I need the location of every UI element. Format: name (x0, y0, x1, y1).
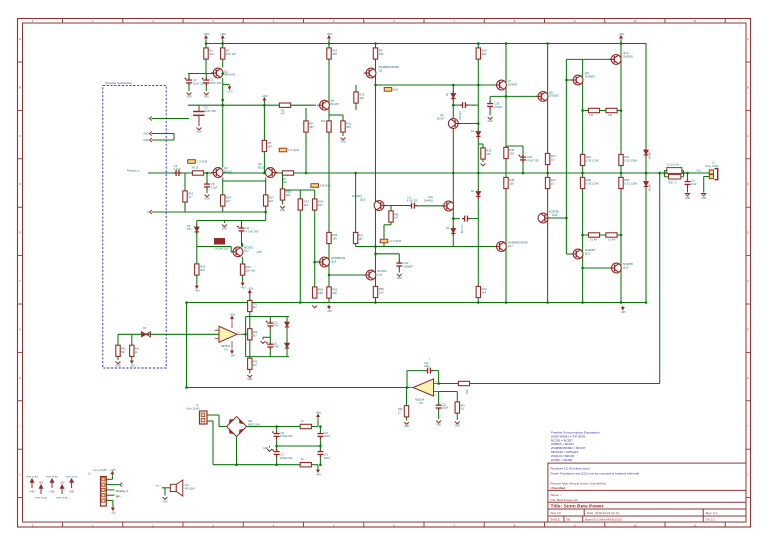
svg-text:Out: Out (697, 169, 701, 173)
wire IC2 input net (439, 383, 660, 385)
junction rail +46V x222.7 (221, 42, 224, 45)
net 0 (150, 117, 152, 121)
resistor R2 (221, 48, 225, 59)
capacitor C18 (317, 431, 323, 439)
wire gnd mid leg (262, 337, 264, 339)
svg-text:GND: GND (701, 198, 706, 200)
svg-text:Unverified: Unverified (551, 486, 566, 490)
wire Q1 emitter (222, 78, 224, 85)
junction mid1 (275, 445, 278, 448)
wire +46V top rail (206, 43, 647, 45)
junction pair lo l (581, 234, 584, 237)
resistor R34 (313, 199, 317, 210)
wire emitter pair net lower (583, 234, 621, 236)
svg-text:47R: 47R (608, 114, 613, 117)
junction Q6 base (477, 122, 480, 125)
junction C3 net (221, 104, 224, 107)
resistor R3 (192, 171, 203, 175)
svg-text:3k3: 3k3 (200, 268, 205, 272)
wire Q9 base net (566, 79, 573, 81)
svg-text:-15V: -15V (111, 512, 117, 515)
wire gnd mid stub (263, 336, 270, 338)
test point TP3 (311, 184, 319, 188)
svg-text:MPSA42: MPSA42 (224, 73, 235, 77)
wire C28 net b (468, 104, 478, 106)
wire Q12 base net c (231, 251, 233, 253)
transistor Q14 (317, 257, 329, 267)
fuse F2 (300, 463, 311, 467)
transistor Q13 (571, 249, 583, 259)
capacitor C13 (409, 203, 417, 209)
junction IC1 out (244, 333, 247, 336)
wire C11 bottom (269, 350, 271, 357)
svg-text:100nF: 100nF (323, 457, 330, 460)
wire J3 pin3 (106, 489, 114, 491)
junction mid rail x621 (620, 172, 623, 175)
wire Q9/Q13 column (582, 59, 584, 302)
capacitor C10 (267, 321, 273, 329)
wire C29 top (489, 96, 491, 101)
capacitor C30 (520, 155, 526, 163)
supply -46V (328, 305, 331, 309)
resistor R53 (588, 233, 599, 237)
junction L1 left (663, 172, 666, 175)
resistor R9 (373, 48, 377, 59)
svg-text:GND: GND (263, 448, 268, 450)
svg-text:1k5: 1k5 (283, 181, 288, 184)
capacitor C28 (460, 102, 468, 108)
wire C18-C19 (319, 439, 321, 452)
svg-text:Std.: Std. (566, 518, 571, 522)
svg-text:4700uF 50V: 4700uF 50V (280, 435, 293, 438)
resistor R6 (279, 103, 290, 107)
junction mid rail x306 (305, 172, 308, 175)
diode D2 (476, 189, 480, 199)
wire psu f (213, 464, 237, 466)
wire C18 top (319, 427, 321, 432)
junction base net x375 (374, 245, 377, 248)
svg-text:361: 361 (346, 125, 351, 129)
junction psu0 (235, 463, 238, 466)
junction mid rail x646 (645, 172, 648, 175)
resistor R18 (606, 108, 617, 112)
svg-text:Title: Sunn Beta Power: Title: Sunn Beta Power (551, 504, 604, 510)
svg-text:GND: GND (340, 142, 345, 144)
diode D4 (451, 226, 455, 236)
wire C8 top (241, 221, 243, 226)
junction Q14 base (313, 261, 316, 264)
svg-text:Q15: Q15 (360, 197, 366, 201)
wire psu b (218, 415, 220, 427)
wire R26 top (242, 257, 244, 264)
junction Q1 base (221, 72, 224, 75)
svg-text:GND: GND (280, 210, 285, 212)
preamp connection dashed box (103, 85, 166, 368)
op-amp IC2 (413, 379, 434, 396)
resistor R46 (504, 177, 508, 188)
svg-text:1k4: 1k4 (482, 290, 487, 294)
wire psu plus rail b (312, 426, 319, 428)
wire J3 +15 leg (111, 476, 113, 480)
svg-text:15: 15 (551, 157, 555, 161)
svg-text:0.1 4W: 0.1 4W (608, 240, 616, 242)
wire Q14 base (315, 261, 320, 263)
svg-text:Board (9.3.0/Win64/EN/2019): Board (9.3.0/Win64/EN/2019) (585, 518, 622, 522)
junction rail +46V x206 (205, 42, 208, 45)
junction fb corner (185, 386, 188, 389)
supply -15V (231, 349, 234, 353)
transistor Q3 (364, 68, 376, 78)
ground R45 (455, 422, 460, 424)
junction Q19 base (581, 267, 584, 270)
diode D8 (451, 91, 455, 101)
resistor R54 (606, 233, 617, 237)
wire preamp in (148, 172, 174, 174)
svg-text:150 1W: 150 1W (226, 52, 236, 56)
svg-text:+15V: +15V (229, 314, 235, 317)
junction C31 (452, 217, 455, 220)
svg-text:Date: 2019-04-19 21:13: Date: 2019-04-19 21:13 (587, 511, 619, 515)
resistor R56 (373, 286, 377, 297)
junction bottom rail x547.6 (546, 301, 549, 304)
wire R22 bottom (184, 202, 186, 212)
svg-text:Conn_01x02: Conn_01x02 (186, 407, 200, 410)
junction Q11 base net (328, 274, 331, 277)
capacitor C15 (685, 179, 691, 187)
capacitor C19 (317, 449, 323, 457)
svg-text:-46V: -46V (195, 290, 201, 293)
wire R28 stub (282, 173, 284, 190)
svg-text:GND: GND (222, 229, 227, 231)
transistor Q8 (536, 92, 548, 102)
capacitor C8 (239, 226, 245, 234)
wire emitter join (223, 180, 266, 182)
svg-text:367: 367 (359, 238, 364, 241)
svg-text:2N4403: 2N4403 (424, 199, 433, 202)
wire C17 bottom (276, 457, 278, 465)
resistor R22 (183, 191, 187, 202)
wire R58 stub (390, 206, 392, 211)
svg-text:R10: R10 (321, 120, 326, 123)
wire R34 column (314, 190, 316, 287)
wire out gnd leg (703, 177, 705, 193)
svg-text:150: 150 (379, 52, 384, 56)
svg-text:PWR_FLAG: PWR_FLAG (46, 475, 58, 478)
wire psu gnd stub (269, 446, 271, 448)
svg-text:150: 150 (332, 236, 337, 240)
svg-text:C: C (747, 134, 749, 138)
junction C16 (275, 425, 278, 428)
wire Q8/Q18 column (547, 44, 549, 303)
svg-text:-15V: -15V (130, 365, 136, 368)
wire net 0a (152, 118, 189, 120)
svg-text:470pF: 470pF (494, 105, 502, 109)
junction bottom rail x646 (645, 301, 648, 304)
svg-text:D: D (19, 182, 21, 186)
svg-text:R3 1k: R3 1k (192, 167, 199, 170)
wire Q12 base net b (230, 247, 232, 252)
wire R33 column (299, 190, 301, 303)
svg-text:D: D (747, 182, 749, 186)
capacitor C12 (436, 403, 442, 411)
capacitor C17 (274, 449, 280, 457)
transistor Q18 (538, 213, 550, 223)
resistor R17 (545, 153, 549, 164)
junction bottom rail x300.3 (299, 301, 302, 304)
svg-text:Q3: Q3 (379, 68, 383, 72)
wire gnd stub join (173, 134, 175, 141)
svg-text:150: 150 (509, 151, 514, 155)
svg-text:+0.7V B+B: +0.7V B+B (389, 240, 401, 243)
svg-text:+46V: +46V (618, 33, 624, 36)
junction C22 tap (374, 253, 377, 256)
ground bias (222, 225, 227, 227)
svg-text:47R: 47R (589, 114, 594, 117)
wire R15 stub a (478, 143, 483, 145)
svg-text:1k4: 1k4 (394, 217, 399, 220)
transistor Q10 (609, 55, 621, 65)
wire R33R34 top net (283, 189, 315, 191)
wire bias bottom (197, 246, 231, 248)
ground R11 (341, 138, 346, 140)
wire R39 stub (406, 388, 408, 406)
svg-text:-46V: -46V (621, 311, 627, 314)
wire C16-C17 (276, 439, 278, 452)
resistor R23 (221, 195, 225, 206)
resistor R5 (262, 140, 266, 151)
supply -46V (241, 281, 244, 285)
transistor Q11 (364, 270, 376, 280)
svg-text:GND: GND (162, 502, 167, 504)
power flag GND (70, 479, 73, 488)
svg-text:0.7V B+B: 0.7V B+B (288, 149, 299, 152)
junction rail +46V x478.3 (477, 42, 480, 45)
wire IC2 output net (187, 387, 410, 389)
diode D9 (644, 148, 648, 158)
wire R27 bottom (265, 206, 267, 212)
wire IC1 fb left (245, 317, 247, 357)
power flag -15V (60, 485, 63, 494)
svg-text:Rev: 0.1: Rev: 0.1 (706, 511, 718, 515)
svg-text:GND: GND (247, 379, 252, 381)
wire R41 bottom (131, 356, 133, 359)
capacitor C31 (462, 216, 470, 222)
wire C2 bottom (188, 85, 190, 91)
resistor R24 (476, 48, 480, 59)
wire C3/Q4 base net (188, 104, 316, 106)
resistor R44 (458, 381, 469, 385)
wire net gnd-b (152, 139, 174, 141)
inductor L1 (667, 168, 682, 174)
op-amp IC1 (219, 326, 237, 342)
wire psu plus up (317, 419, 319, 427)
connector J3 preamp (101, 477, 107, 507)
wire IC1 fb top (246, 316, 289, 318)
svg-text:0.33 1/2W: 0.33 1/2W (586, 181, 599, 185)
transistor Q15 (374, 201, 386, 211)
junction bottom rail x478.3 (477, 301, 480, 304)
svg-text:R52 7.5: R52 7.5 (669, 183, 678, 185)
svg-text:17pF: 17pF (211, 186, 218, 190)
svg-text:2k2: 2k2 (253, 306, 258, 309)
ground C2 (187, 93, 192, 95)
resistor R14 (588, 108, 599, 112)
wire psu bridge bottom (236, 437, 238, 465)
supply +46V (317, 414, 320, 418)
ground C10C11 (261, 341, 266, 343)
wire IC2 minus net (439, 391, 458, 393)
svg-text:Q18: Q18 (552, 213, 558, 217)
wire Q15-Q16 base net b (417, 205, 444, 207)
svg-text:394: 394 (482, 52, 487, 56)
transistor Q2 (211, 168, 223, 178)
junction bottom rail x506 (505, 301, 508, 304)
svg-text:2.2uF: 2.2uF (174, 167, 181, 171)
svg-text:C: C (19, 134, 21, 138)
svg-text:4700uF 50V: 4700uF 50V (280, 457, 293, 460)
junction mid rail x659.7 (658, 172, 661, 175)
wire R23 bottom (222, 206, 224, 212)
svg-text:G: G (19, 327, 21, 331)
wire R11 bottom (342, 132, 344, 136)
resistor R57 (353, 232, 357, 243)
wire C29 bottom (489, 109, 491, 116)
wire Q17 base net (356, 246, 497, 248)
transistor Q5 (265, 168, 277, 178)
svg-text:+46V: +46V (326, 33, 332, 36)
svg-text:Resistors 1/2 W unless noted: Resistors 1/2 W unless noted (551, 467, 590, 471)
resistor R47 (545, 177, 549, 188)
junction bottom rail x186.5 (185, 301, 188, 304)
svg-text:B: B (19, 85, 21, 89)
wire R57 column (355, 173, 357, 232)
junction bottom rail x582.6 (581, 301, 584, 304)
svg-text:1.5uF: 1.5uF (691, 183, 698, 186)
svg-text:100nF: 100nF (323, 435, 330, 438)
capacitor C29 (487, 101, 493, 109)
wire R45 bottom (456, 413, 458, 420)
junction R28 (281, 189, 284, 192)
wire R15 gnd stub (482, 159, 484, 162)
wire R42 top (249, 357, 251, 359)
wire Q5 emitter (265, 177, 267, 196)
junction C18 (319, 425, 322, 428)
wire Q18/Q13 feed column (565, 59, 567, 254)
junction pair lo r (620, 234, 623, 237)
svg-text:15: 15 (551, 181, 555, 185)
resistor R16 (504, 147, 508, 158)
wire Q7 emitter net (490, 95, 538, 97)
svg-text:560: 560 (121, 351, 126, 354)
junction C28 (452, 104, 455, 107)
resistor R30 (327, 287, 331, 298)
wire Q1 emitter jog (223, 83, 230, 85)
diode D6 (285, 320, 289, 330)
svg-text:GND: GND (404, 426, 409, 428)
power flag +15V (50, 479, 53, 488)
capacitor C16 (274, 431, 280, 439)
svg-text:B+B: B+B (393, 88, 398, 91)
wire psu a (207, 414, 219, 416)
svg-text:Size A3: Size A3 (551, 511, 562, 515)
transistor Q7 (494, 80, 506, 90)
ground speaker (163, 497, 168, 499)
wire psu c (219, 426, 227, 428)
svg-text:2k2: 2k2 (253, 364, 258, 367)
ground C3 (197, 128, 202, 130)
svg-text:GND: GND (436, 425, 441, 427)
svg-text:+15V: +15V (256, 251, 262, 254)
svg-text:+15V: +15V (110, 469, 116, 472)
wire C5 top (206, 173, 208, 182)
junction R6 net (263, 104, 266, 107)
svg-text:Conn_01x02: Conn_01x02 (705, 165, 719, 168)
wire R10-R11 top (329, 114, 343, 116)
junction mid rail x478.3 (477, 172, 480, 175)
junction D8 top (452, 84, 455, 87)
transistor Q16 (442, 201, 454, 211)
svg-text:3k3: 3k3 (209, 52, 214, 56)
svg-text:2N3905: 2N3905 (585, 74, 595, 78)
svg-text:2N456 = 2N456: 2N456 = 2N456 (551, 458, 572, 462)
svg-text:PWR_FLAG: PWR_FLAG (66, 475, 78, 478)
wire psu mid rail (277, 445, 321, 447)
ground R28 (280, 206, 285, 208)
svg-text:PWR_FLAG: PWR_FLAG (35, 497, 47, 500)
svg-text:File: Beta Power.sch: File: Beta Power.sch (551, 498, 579, 502)
svg-text:150: 150 (509, 181, 514, 185)
resistor R19 (580, 154, 584, 165)
capacitor C1 (203, 78, 209, 86)
wire C22 bottom (398, 268, 400, 273)
wire J3 pin2 (106, 484, 119, 486)
wire Q6 base net (458, 123, 478, 125)
diode D7 (285, 341, 289, 351)
capacitor C2 (186, 78, 192, 86)
svg-text:0.33 1/2W: 0.33 1/2W (586, 158, 599, 162)
wire TP5 link b (383, 225, 385, 239)
resistor R11 (341, 121, 345, 132)
svg-text:467: 467 (318, 203, 323, 207)
svg-text:47uF: 47uF (273, 346, 279, 349)
svg-text:+46V: +46V (315, 412, 321, 415)
wire D3 top (196, 221, 198, 228)
svg-text:Preamp_In: Preamp_In (116, 490, 129, 493)
resistor R8 (304, 121, 308, 132)
wire R32 top (249, 317, 251, 329)
svg-text:1N4004: 1N4004 (648, 183, 650, 192)
speaker LS1 (170, 480, 183, 496)
svg-text:R44: R44 (465, 390, 467, 395)
wire R15 stub b (482, 144, 484, 148)
svg-text:Q19: Q19 (623, 265, 629, 269)
wire C10 top (269, 317, 271, 321)
wire emitter pair net upper (583, 110, 621, 112)
diode pair D5 (142, 332, 151, 337)
svg-text:1k5: 1k5 (286, 193, 291, 197)
wire R40 gnd (117, 356, 119, 360)
wire R8 column (305, 108, 307, 173)
resistor R33 (298, 199, 302, 210)
svg-text:+46V: +46V (203, 33, 209, 36)
wire +15V stem (263, 101, 265, 105)
transistor Q12 (231, 247, 243, 257)
wire Q1 emitter column (222, 84, 224, 167)
svg-text:+15V: +15V (49, 491, 55, 493)
junction IC2 out (406, 386, 409, 389)
ground R40 (116, 362, 121, 364)
junction Q7 emitter (505, 95, 508, 98)
